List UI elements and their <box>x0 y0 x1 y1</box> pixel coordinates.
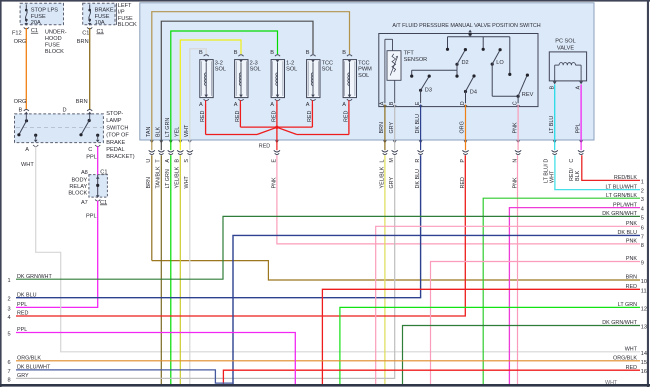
svg-text:GRY: GRY <box>17 373 29 379</box>
svg-text:A: A <box>234 102 238 108</box>
svg-text:BODY: BODY <box>71 177 87 183</box>
svg-text:FUSE: FUSE <box>95 14 110 20</box>
svg-text:BRN: BRN <box>379 122 385 133</box>
svg-text:SWITCH: SWITCH <box>106 125 128 131</box>
svg-text:WHT: WHT <box>605 380 618 386</box>
svg-text:A: A <box>270 102 274 108</box>
svg-text:3: 3 <box>8 306 11 312</box>
svg-text:WHT: WHT <box>625 347 638 353</box>
svg-text:LAMP: LAMP <box>106 118 122 124</box>
svg-text:SENSOR: SENSOR <box>404 57 428 63</box>
svg-text:GRY: GRY <box>389 122 395 134</box>
svg-text:12: 12 <box>641 306 647 312</box>
svg-text:D: D <box>544 159 550 163</box>
svg-text:7: 7 <box>8 369 11 375</box>
svg-text:ORG: ORG <box>14 39 27 45</box>
svg-text:2: 2 <box>8 297 11 303</box>
svg-text:WHT: WHT <box>21 162 34 168</box>
svg-text:FUSE: FUSE <box>118 16 133 22</box>
svg-text:REV: REV <box>522 92 534 98</box>
svg-text:4: 4 <box>641 207 644 213</box>
svg-text:ORG: ORG <box>460 121 466 133</box>
svg-text:6: 6 <box>8 360 11 366</box>
svg-text:PPL: PPL <box>17 302 27 308</box>
svg-text:RELAY: RELAY <box>69 184 87 190</box>
svg-text:5: 5 <box>8 332 11 338</box>
svg-text:PNK: PNK <box>626 239 637 245</box>
svg-text:B: B <box>270 50 274 56</box>
svg-text:YEL: YEL <box>175 127 181 137</box>
svg-text:PPL: PPL <box>86 214 97 220</box>
svg-text:C: C <box>569 159 575 163</box>
svg-text:RED: RED <box>626 284 637 290</box>
svg-text:4: 4 <box>8 315 11 321</box>
svg-text:2-3: 2-3 <box>250 60 258 66</box>
svg-text:BRN: BRN <box>77 39 89 45</box>
svg-text:TFT: TFT <box>404 50 415 56</box>
svg-text:BRN: BRN <box>76 99 88 105</box>
svg-text:6: 6 <box>641 225 644 231</box>
svg-text:C1: C1 <box>82 30 89 36</box>
svg-text:PWM: PWM <box>358 67 372 73</box>
svg-text:PNK: PNK <box>512 122 518 133</box>
svg-text:VALVE: VALVE <box>557 45 574 51</box>
svg-text:8: 8 <box>8 377 11 383</box>
svg-text:14: 14 <box>641 351 647 357</box>
svg-text:LT BLU: LT BLU <box>549 116 555 134</box>
svg-text:A: A <box>342 102 346 108</box>
svg-text:LT GRN: LT GRN <box>618 302 637 308</box>
svg-text:15: 15 <box>641 360 647 366</box>
svg-text:SOL: SOL <box>250 67 261 73</box>
svg-text:A: A <box>25 147 29 153</box>
svg-text:SOL: SOL <box>286 67 297 73</box>
svg-text:STOP-: STOP- <box>106 111 123 117</box>
svg-text:DK BLU: DK BLU <box>618 230 638 236</box>
svg-text:ORG/BLK: ORG/BLK <box>17 356 41 362</box>
svg-text:TCC: TCC <box>322 60 334 66</box>
svg-text:A: A <box>306 102 310 108</box>
svg-text:3-2: 3-2 <box>215 60 223 66</box>
svg-text:B: B <box>199 50 203 56</box>
svg-text:1-2: 1-2 <box>286 60 294 66</box>
svg-text:I/P: I/P <box>118 9 125 15</box>
svg-text:B: B <box>234 50 238 56</box>
svg-text:DK GRN/WHT: DK GRN/WHT <box>602 320 637 326</box>
svg-text:PPL: PPL <box>17 327 27 333</box>
svg-text:1: 1 <box>8 278 11 284</box>
svg-text:HOOD: HOOD <box>45 36 62 42</box>
svg-text:ORG: ORG <box>14 99 27 105</box>
svg-text:9: 9 <box>641 261 644 267</box>
svg-text:BRAKE: BRAKE <box>95 8 114 14</box>
svg-text:BLK: BLK <box>575 170 581 181</box>
svg-text:1: 1 <box>641 179 644 185</box>
svg-text:LT GRN: LT GRN <box>165 118 171 137</box>
svg-text:10: 10 <box>641 279 647 285</box>
svg-text:DK GRN/WHT: DK GRN/WHT <box>602 211 637 217</box>
svg-text:B: B <box>342 50 346 56</box>
svg-text:RED: RED <box>17 311 28 317</box>
svg-text:PC SOL: PC SOL <box>555 39 576 45</box>
svg-text:BLOCK: BLOCK <box>45 49 64 55</box>
svg-text:2: 2 <box>641 189 644 195</box>
svg-text:20A: 20A <box>31 20 41 26</box>
svg-text:B: B <box>19 108 23 114</box>
svg-text:SOL: SOL <box>215 67 226 73</box>
svg-text:B: B <box>306 50 310 56</box>
svg-text:10A: 10A <box>95 20 105 26</box>
svg-text:PNK: PNK <box>626 221 637 227</box>
svg-text:8: 8 <box>641 243 644 249</box>
svg-text:F12: F12 <box>12 30 22 36</box>
svg-text:BRAKE: BRAKE <box>106 140 125 146</box>
svg-text:BLOCK: BLOCK <box>118 22 137 28</box>
svg-text:RED: RED <box>259 144 270 150</box>
svg-text:LEFT: LEFT <box>118 3 132 9</box>
svg-text:DK BLU/WHT: DK BLU/WHT <box>17 365 51 371</box>
svg-text:A/T FLUID PRESSURE MANUAL VALV: A/T FLUID PRESSURE MANUAL VALVE POSITION… <box>392 23 540 29</box>
svg-text:PPL: PPL <box>86 154 97 160</box>
svg-text:7: 7 <box>641 234 644 240</box>
svg-text:FUSE: FUSE <box>45 42 60 48</box>
svg-text:DK BLU: DK BLU <box>415 114 421 134</box>
svg-text:C: C <box>88 147 92 153</box>
svg-text:PPL: PPL <box>575 123 581 133</box>
svg-text:DK GRN/WHT: DK GRN/WHT <box>17 274 52 280</box>
svg-text:3: 3 <box>641 197 644 203</box>
svg-text:SOL: SOL <box>322 67 333 73</box>
svg-text:RED: RED <box>626 365 637 371</box>
svg-text:PEDAL: PEDAL <box>106 147 124 153</box>
svg-text:D3: D3 <box>425 88 432 94</box>
svg-text:BRACKET): BRACKET) <box>106 154 134 160</box>
svg-text:16: 16 <box>641 369 647 375</box>
svg-text:FUSE: FUSE <box>31 14 46 20</box>
svg-text:PNK: PNK <box>626 256 637 262</box>
svg-text:LO: LO <box>496 60 504 66</box>
svg-text:UNDER-: UNDER- <box>45 29 67 35</box>
svg-text:A: A <box>199 102 203 108</box>
svg-text:D4: D4 <box>470 90 477 96</box>
svg-text:13: 13 <box>641 325 647 331</box>
svg-text:(TOP OF: (TOP OF <box>106 133 129 139</box>
svg-text:BLOCK: BLOCK <box>68 190 87 196</box>
svg-text:DK BLU: DK BLU <box>17 292 37 298</box>
svg-text:D2: D2 <box>462 60 469 66</box>
svg-text:WHT: WHT <box>184 124 190 137</box>
svg-text:ORG/BLK: ORG/BLK <box>613 356 637 362</box>
svg-text:TAN: TAN <box>146 127 152 137</box>
svg-text:A7: A7 <box>81 200 88 206</box>
svg-text:LT BLU/WHT: LT BLU/WHT <box>605 184 637 190</box>
svg-text:5: 5 <box>641 215 644 221</box>
svg-text:BRN: BRN <box>626 275 637 281</box>
svg-text:11: 11 <box>641 288 647 294</box>
svg-text:SOL: SOL <box>358 73 369 79</box>
svg-text:LT GRN/BLK: LT GRN/BLK <box>606 193 637 199</box>
svg-text:BLK: BLK <box>156 126 162 137</box>
svg-text:STOP LPS: STOP LPS <box>31 8 58 14</box>
svg-text:RED/BLK: RED/BLK <box>614 175 637 181</box>
svg-text:A8: A8 <box>81 170 88 176</box>
svg-text:D: D <box>63 108 67 114</box>
svg-text:PPL/WHT: PPL/WHT <box>613 202 638 208</box>
svg-text:TCC: TCC <box>358 60 370 66</box>
